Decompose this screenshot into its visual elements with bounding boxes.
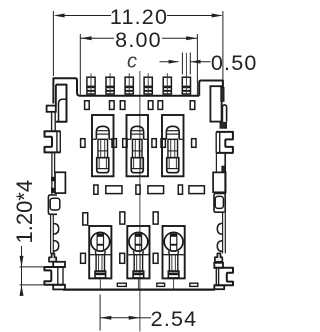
top-left solder block (47, 106, 56, 112)
pin 3 (125, 73, 133, 94)
left small tab (48, 195, 57, 214)
right inner rail segment (215, 153, 217, 173)
left middle mounting tab (45, 131, 61, 152)
pin 1 (87, 73, 95, 94)
left inner wall rect (55, 172, 65, 193)
left rail bump 2 (53, 241, 58, 251)
left rail foot (49, 254, 56, 262)
dimension 1.20*4 left side (12, 180, 44, 296)
left rail lower (50, 214, 52, 253)
bottom row side slots (81, 253, 86, 263)
right rail lower double (222, 212, 224, 253)
body top-right step corner (199, 81, 223, 96)
right rail bump 2 (217, 241, 222, 252)
pin 6 (182, 53, 190, 94)
svg-text:8.00: 8.00 (115, 28, 162, 52)
body top edge (80, 95, 199, 97)
right dark block (220, 122, 226, 128)
dimension 2.54 bottom (100, 295, 197, 332)
bottom-left mounting tab (53, 262, 65, 267)
dimension 0.50 pin width (160, 51, 258, 75)
right narrow tab (222, 105, 226, 122)
contact bottom row 1 (89, 226, 111, 289)
vertical centerline (139, 71, 141, 332)
right rail (224, 153, 226, 212)
bottom-right mounting tab (214, 263, 223, 268)
top-right shield plate (210, 86, 221, 121)
svg-text:1.20*4: 1.20*4 (12, 180, 37, 244)
svg-text:2.54: 2.54 (151, 307, 198, 331)
pin 2 (106, 73, 114, 94)
right rail bump 1 (217, 223, 222, 234)
left rail weld ticks (51, 177, 56, 182)
body bottom edge (63, 289, 215, 291)
top band slot row (85, 101, 90, 110)
inter-row slots (83, 213, 88, 225)
left rail bump 1 (53, 224, 58, 235)
right middle mounting tab (216, 132, 233, 153)
dimension 8.00 (80, 28, 197, 96)
right small tab (214, 194, 225, 213)
contact top row 1 (92, 115, 114, 176)
svg-text:0.50: 0.50 (211, 51, 258, 75)
contact top row 3 (162, 115, 184, 176)
left rail below tab (51, 152, 53, 195)
dimension 11.20 top (53, 5, 223, 80)
middle band slots (94, 185, 98, 194)
top row side slots (81, 139, 85, 148)
svg-text:11.20: 11.20 (110, 5, 168, 29)
contact bottom row 2 (127, 226, 149, 289)
top-left retention hook (55, 85, 57, 106)
right inner wall rect (213, 172, 226, 192)
bottom edge pads (117, 283, 126, 286)
top-right weld marks (221, 88, 224, 102)
contact top row 2 (127, 115, 149, 176)
right rail foot (215, 253, 222, 261)
left rail channel (51, 112, 53, 131)
pin 5 (163, 73, 171, 94)
svg-text:c: c (127, 51, 137, 73)
pin 4 (144, 73, 152, 94)
body top-left corner and step (53, 78, 80, 103)
middle band windows (106, 186, 122, 194)
contact bottom row 3 (163, 226, 185, 289)
right rail waist (222, 166, 225, 172)
